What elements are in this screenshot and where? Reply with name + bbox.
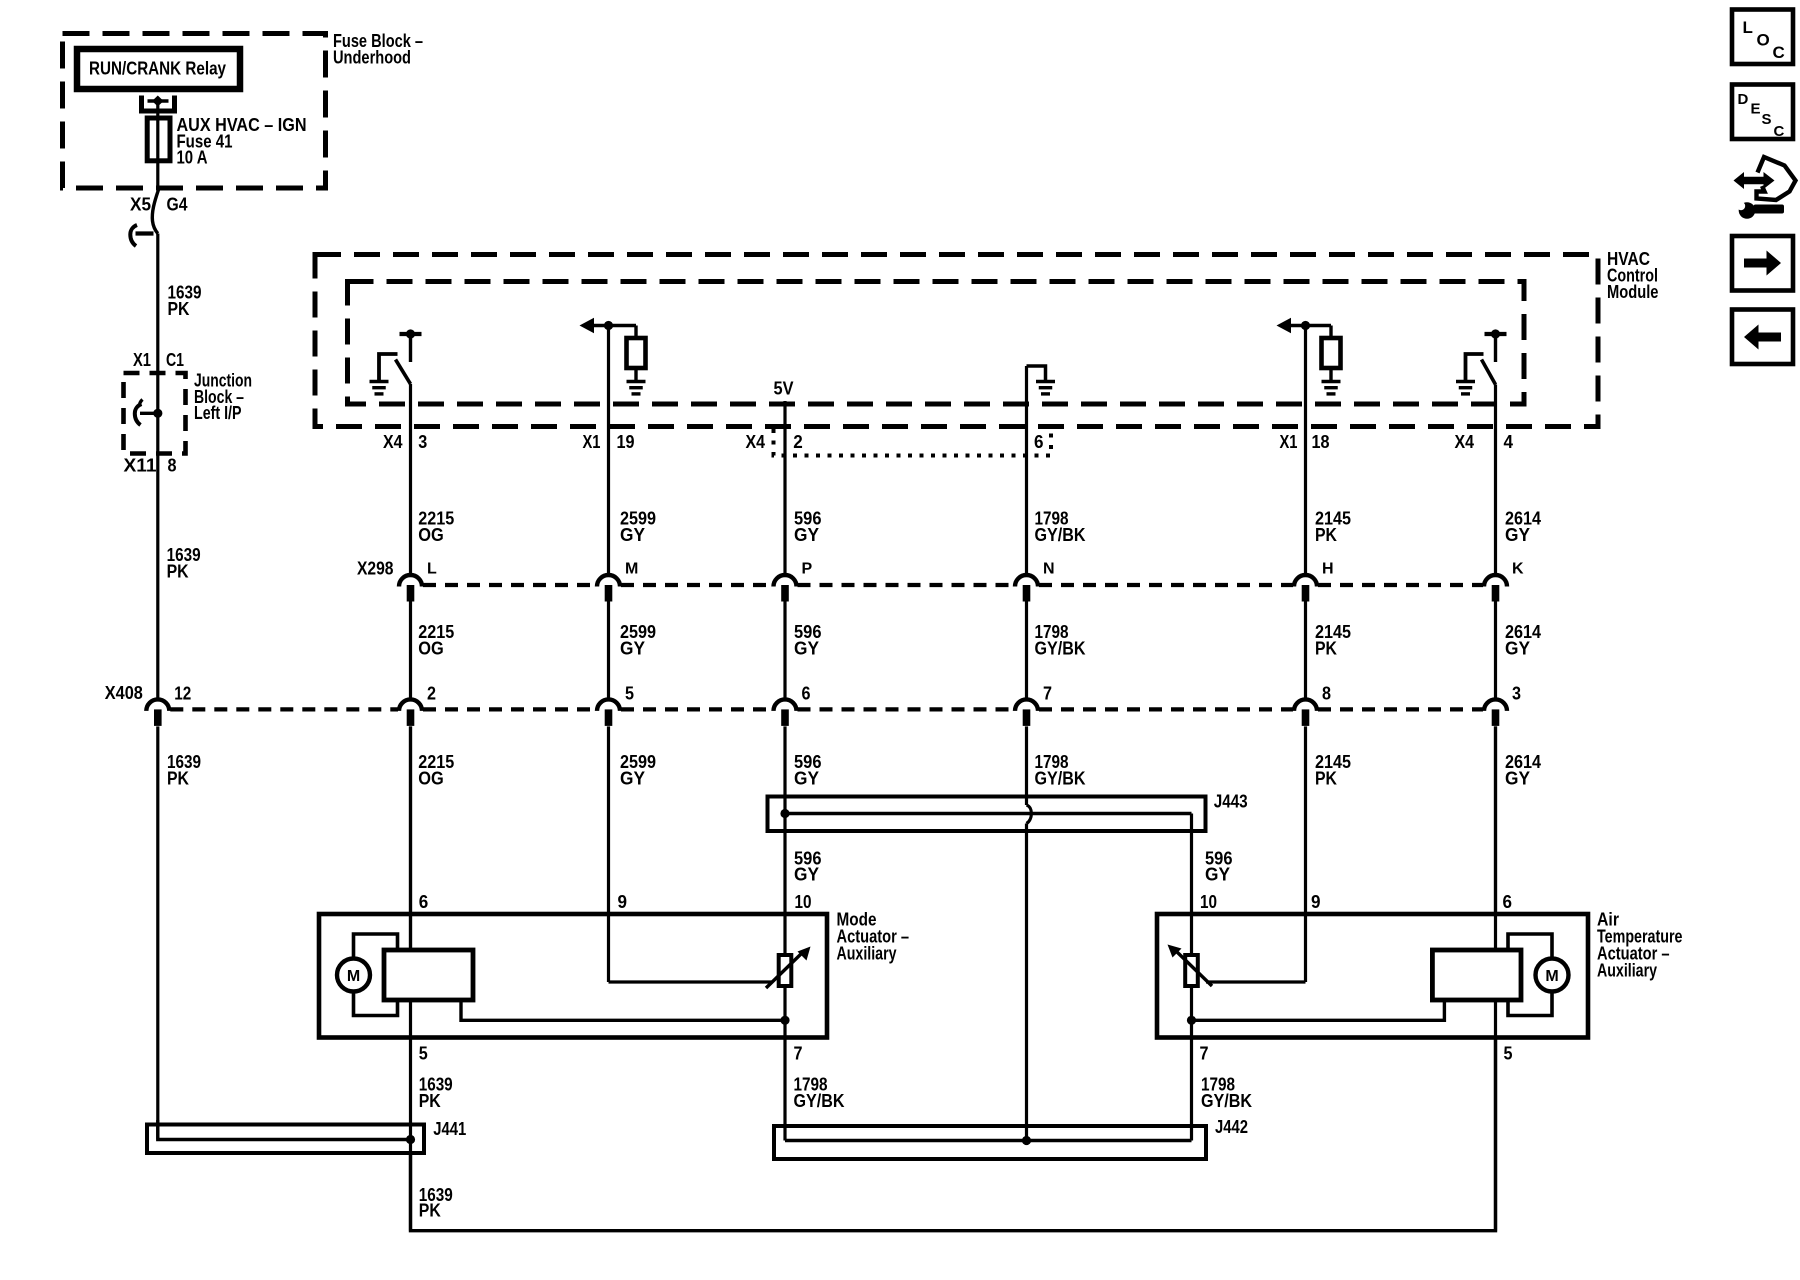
splice J443 bus: [780, 809, 789, 818]
svg-text:X408: X408: [105, 683, 143, 703]
svg-text:J442: J442: [1215, 1117, 1248, 1137]
wire col6 below X408: [1494, 726, 1497, 915]
wire col3 below X408: [783, 726, 786, 915]
connector X5 G4 symbol: [152, 190, 158, 234]
svg-text:O: O: [1757, 31, 1770, 50]
svg-text:E: E: [1751, 101, 1761, 118]
wire col6 inside module: [1494, 385, 1497, 575]
svg-text:7: 7: [794, 1043, 803, 1063]
icon LOC button: [1732, 10, 1793, 65]
motor M1 wiring loop: [354, 934, 398, 958]
connector X408 pin 8: [1294, 699, 1317, 711]
connector X408 pin 3: [1484, 699, 1507, 711]
resistor R1 (col 2): [634, 326, 637, 339]
svg-text:K: K: [1512, 561, 1524, 578]
motor M2 wiring loop: [1508, 934, 1552, 958]
wire pin9 to pot wiper: [607, 915, 610, 982]
svg-text:9: 9: [618, 892, 628, 912]
connector X408 pin 12: [146, 699, 169, 711]
wire col6 X298 to X408: [1494, 602, 1497, 699]
air temp gearbox: [1432, 950, 1521, 1000]
svg-text:PK: PK: [419, 1201, 441, 1221]
connector X298 pin L: [399, 575, 422, 587]
motor M1: [337, 959, 370, 992]
gearbox tap to pot wiper bus: [461, 1000, 785, 1020]
connector X298 pin M: [597, 575, 620, 587]
wire col1 inside module: [409, 384, 412, 574]
wire pin7 from pot: [783, 1020, 786, 1140]
ground (switch S1): [370, 380, 389, 383]
svg-text:X1: X1: [583, 432, 601, 452]
svg-text:GY: GY: [620, 638, 645, 658]
svg-text:GY/BK: GY/BK: [1201, 1091, 1252, 1111]
svg-text:C: C: [1773, 43, 1785, 62]
svg-text:N: N: [1043, 561, 1054, 578]
wire col5 from module: [1304, 326, 1307, 575]
wire 1639 PK: [156, 234, 159, 374]
wire col4 below X408: [1025, 726, 1028, 805]
svg-text:X11: X11: [124, 456, 157, 476]
mode actuator auxiliary box: [319, 914, 827, 1038]
svg-text:PK: PK: [167, 769, 189, 789]
splice J441 bus: [158, 1120, 411, 1140]
HVAC control module inner box: [348, 282, 1525, 405]
svg-text:6: 6: [1503, 892, 1513, 912]
wire col4 from module: [1025, 366, 1028, 574]
svg-text:GY: GY: [1505, 525, 1530, 545]
svg-text:G4: G4: [167, 195, 188, 215]
wire through junction block: [156, 373, 159, 454]
connector X408 pin 6: [774, 699, 797, 711]
connector X408 pin 7: [1015, 699, 1038, 711]
svg-text:6: 6: [1034, 432, 1044, 452]
connector row X298 dashed line: [423, 583, 596, 587]
svg-text:L: L: [427, 561, 437, 578]
svg-text:GY: GY: [620, 769, 645, 789]
signal arrow (col 2): [580, 318, 595, 333]
svg-text:19: 19: [617, 432, 635, 452]
RUN/CRANK Relay: [77, 49, 240, 89]
signal arrow (col 5): [1277, 318, 1292, 333]
relay output bracket connector: [142, 96, 175, 112]
svg-text:7: 7: [1200, 1043, 1209, 1063]
icon shortcut/jump: [1734, 172, 1775, 189]
svg-text:3: 3: [1512, 683, 1521, 703]
connector X298 pin K: [1484, 575, 1507, 587]
wire pin9 to pot wiper (air temp): [1304, 915, 1307, 982]
icon DESC button: [1732, 85, 1793, 140]
svg-text:3: 3: [418, 432, 427, 452]
pot wiper bus to gearbox (air temp): [1187, 1016, 1196, 1025]
wire col1 below X408: [409, 726, 412, 951]
svg-text:GY: GY: [1505, 638, 1530, 658]
svg-text:8: 8: [1322, 683, 1331, 703]
svg-text:GY: GY: [794, 525, 819, 545]
svg-text:P: P: [802, 561, 813, 578]
connector X4 dotted group box: [774, 429, 1052, 456]
svg-text:OG: OG: [418, 769, 444, 789]
svg-text:C1: C1: [166, 350, 184, 370]
svg-text:J443: J443: [1214, 792, 1248, 812]
svg-text:10: 10: [1200, 892, 1217, 912]
wire col2 from module: [607, 326, 610, 575]
svg-text:C: C: [1774, 123, 1785, 140]
connector X408 pin 2: [399, 699, 422, 711]
wire relay to fuse: [156, 101, 159, 118]
motor M2: [1536, 959, 1569, 992]
svg-text:M: M: [1545, 968, 1558, 985]
wire 1639 PK to X408: [156, 454, 159, 698]
svg-text:OG: OG: [418, 638, 444, 658]
splice J443 box: [768, 797, 1206, 832]
potentiometer P2: [1190, 915, 1193, 955]
fuse AUX HVAC-IGN Fuse 41 10A: [156, 118, 159, 161]
ground (R2): [1322, 380, 1341, 383]
svg-text:X1: X1: [133, 350, 151, 370]
svg-text:5: 5: [1504, 1043, 1513, 1063]
svg-text:18: 18: [1312, 432, 1330, 452]
svg-text:GY: GY: [620, 525, 645, 545]
svg-text:J441: J441: [433, 1119, 466, 1139]
svg-text:PK: PK: [1315, 638, 1337, 658]
junction block left I/P box: [124, 373, 186, 454]
svg-text:5V: 5V: [774, 379, 794, 399]
svg-text:GY: GY: [794, 865, 819, 885]
svg-text:X4: X4: [383, 432, 403, 452]
svg-text:PK: PK: [168, 299, 190, 319]
switch S2 blade and ground: [1466, 354, 1484, 381]
svg-text:GY: GY: [794, 769, 819, 789]
svg-text:PK: PK: [1315, 525, 1337, 545]
svg-text:GY: GY: [1205, 865, 1230, 885]
wire col4 X298 to X408: [1025, 602, 1028, 699]
connector row X408 dashed line: [170, 707, 398, 711]
wire 1639 PK below X408: [156, 726, 159, 1139]
switch S1 fixed contact (col 1): [400, 332, 422, 336]
svg-text:Auxiliary: Auxiliary: [1597, 961, 1657, 981]
ground (R1): [627, 380, 646, 383]
junction block tap connector: [140, 412, 158, 415]
wire pin7 from pot (air temp): [1190, 1020, 1193, 1140]
svg-text:GY: GY: [794, 638, 819, 658]
svg-text:2: 2: [427, 683, 436, 703]
wire col2 below X408: [607, 726, 610, 915]
connector X408 pin 5: [597, 699, 620, 711]
splice J442 bus: [785, 1139, 1192, 1142]
svg-text:Underhood: Underhood: [333, 48, 411, 68]
icon back arrow button: [1732, 310, 1793, 365]
svg-text:7: 7: [1043, 683, 1052, 703]
svg-text:X5: X5: [130, 195, 151, 215]
svg-text:GY/BK: GY/BK: [1035, 525, 1086, 545]
switch S1 blade and ground: [379, 354, 398, 381]
wire col1 X298 to X408: [409, 602, 412, 699]
svg-text:Left I/P: Left I/P: [194, 403, 242, 423]
svg-text:5: 5: [419, 1043, 428, 1063]
svg-text:Auxiliary: Auxiliary: [837, 943, 897, 963]
splice J441 box: [147, 1125, 424, 1154]
svg-text:X298: X298: [357, 559, 394, 579]
connector X298 pin P: [774, 575, 797, 587]
wire pin6 to gearbox (air temp): [1494, 726, 1497, 950]
wire pin5 from gearbox: [409, 1000, 412, 1231]
HVAC control module outer box: [315, 255, 1598, 427]
svg-text:8: 8: [168, 456, 177, 476]
svg-text:2: 2: [793, 432, 803, 452]
wire pin5 from gearbox (air temp): [1494, 1000, 1497, 1231]
svg-text:6: 6: [802, 683, 811, 703]
switch S2 fixed contact (col 6): [1485, 332, 1507, 336]
svg-text:Module: Module: [1607, 282, 1659, 302]
connector X298 pin H: [1294, 575, 1317, 587]
svg-text:9: 9: [1311, 892, 1321, 912]
svg-text:H: H: [1322, 561, 1333, 578]
svg-text:X4: X4: [746, 432, 766, 452]
svg-text:GY/BK: GY/BK: [794, 1091, 845, 1111]
svg-text:10: 10: [795, 892, 812, 912]
mode actuator gearbox: [384, 950, 473, 1000]
splice J442 box: [774, 1126, 1206, 1159]
svg-text:OG: OG: [418, 525, 444, 545]
svg-text:L: L: [1743, 18, 1753, 37]
svg-text:GY/BK: GY/BK: [1035, 638, 1086, 658]
air temperature actuator auxiliary box: [1157, 914, 1588, 1038]
svg-text:D: D: [1738, 91, 1749, 108]
ground (switch S2): [1456, 380, 1475, 383]
svg-text:5: 5: [625, 683, 634, 703]
wire col5 X298 to X408: [1304, 602, 1307, 699]
wire col3 X298 to X408: [783, 602, 786, 699]
svg-text:4: 4: [1504, 432, 1514, 452]
svg-text:PK: PK: [167, 562, 189, 582]
wire 1639 PK bottom run: [411, 1038, 1496, 1231]
svg-text:PK: PK: [1315, 769, 1337, 789]
wire pin6 to gearbox: [409, 726, 412, 950]
svg-text:PK: PK: [419, 1091, 441, 1111]
svg-text:X4: X4: [1455, 432, 1475, 452]
svg-text:M: M: [347, 968, 360, 985]
svg-text:M: M: [625, 561, 638, 578]
connector X298 pin N: [1015, 575, 1038, 587]
svg-text:6: 6: [419, 892, 429, 912]
wire col5 below X408: [1304, 726, 1307, 915]
internal ground (col 4): [1027, 366, 1046, 381]
svg-text:GY/BK: GY/BK: [1035, 769, 1086, 789]
icon next arrow button: [1732, 236, 1793, 291]
resistor R2 (col 5): [1329, 326, 1332, 339]
fuse block underhood box: [63, 34, 326, 189]
svg-text:GY: GY: [1505, 769, 1530, 789]
svg-text:10 A: 10 A: [177, 148, 208, 168]
svg-text:12: 12: [174, 683, 191, 703]
wire fuse to X5 connector: [156, 161, 159, 190]
svg-text:RUN/CRANK Relay: RUN/CRANK Relay: [89, 58, 226, 78]
wire col2 X298 to X408: [607, 602, 610, 699]
potentiometer P1: [783, 915, 786, 955]
svg-text:X1: X1: [1280, 432, 1298, 452]
svg-text:S: S: [1762, 111, 1772, 128]
